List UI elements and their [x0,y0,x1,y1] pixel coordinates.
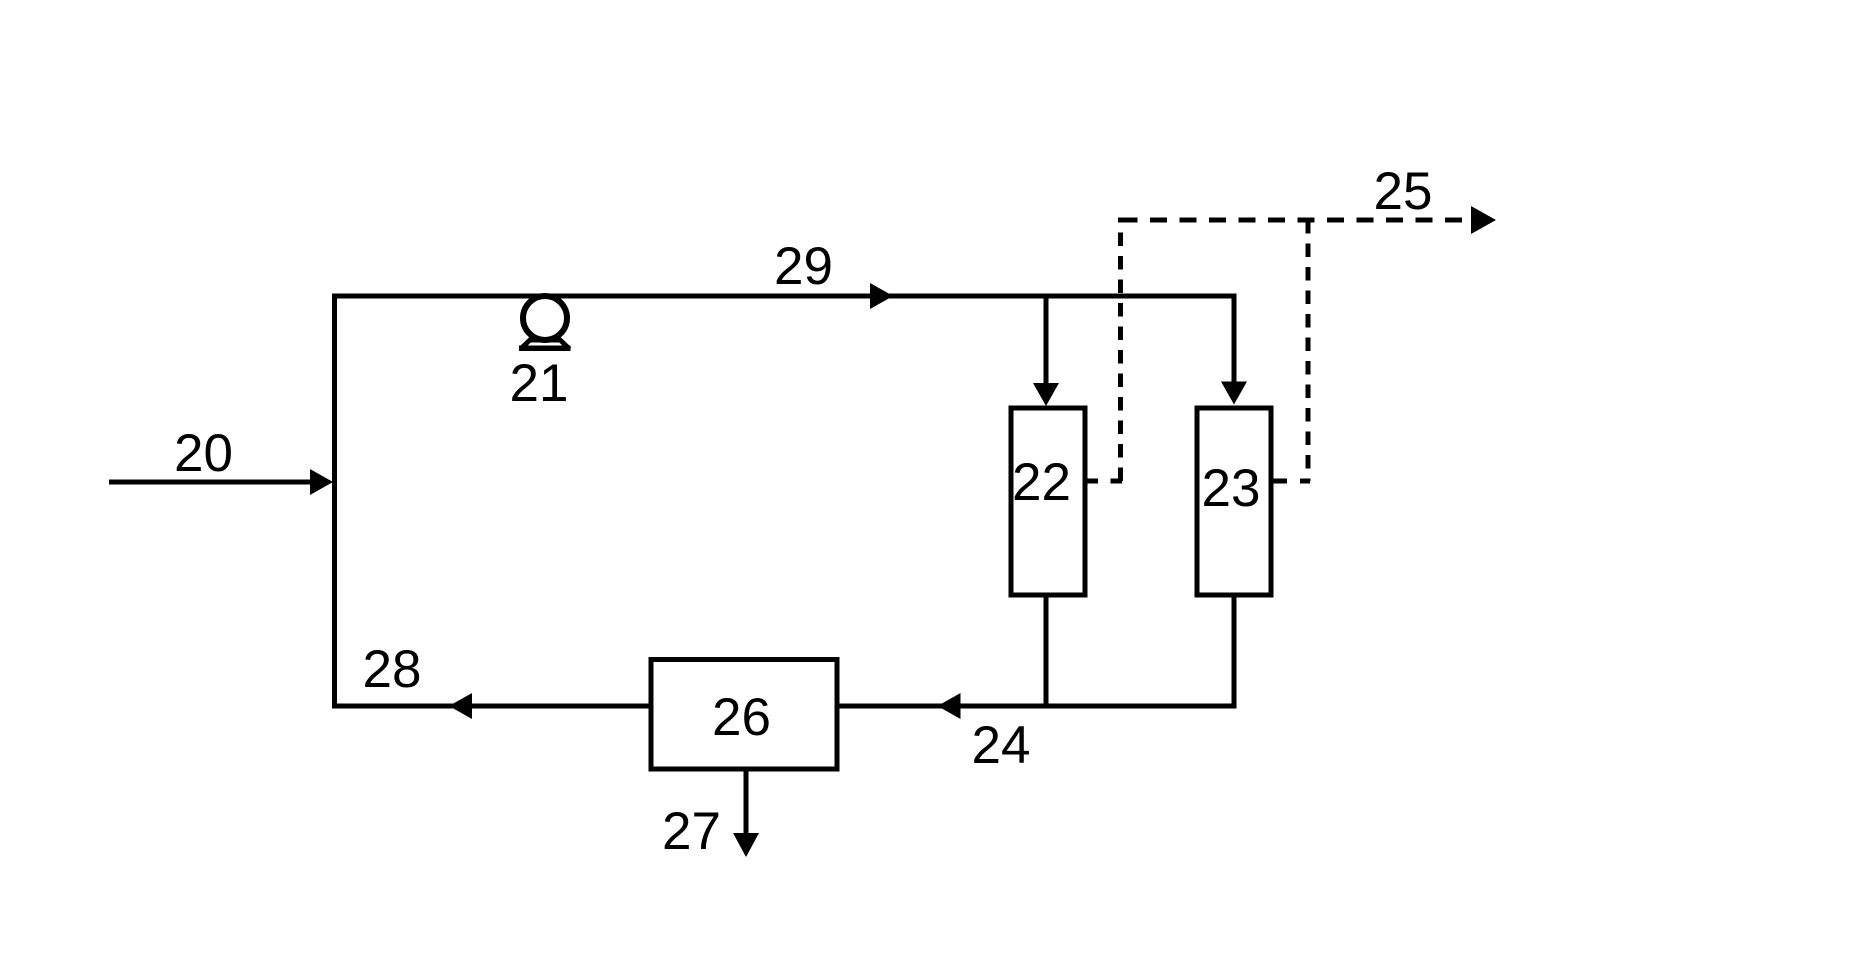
dashed wire: riser from vessel 22 stub up to offgas header [1118,218,1123,482]
wire: branch down into vessel 22 [1033,294,1059,407]
svg-text:27: 27 [662,802,721,861]
unit box 26 [651,660,837,770]
wire: branch down into vessel 23 [1221,294,1247,405]
dashed wire: overhead stub from vessel 23 [1270,479,1310,484]
vessel 23 [1197,408,1271,595]
wire: bottoms of vessel 22 down to product header [1044,596,1049,709]
svg-text:21: 21 [510,354,569,413]
wire: feed stream 20 arrow into loop [109,469,333,495]
svg-text:29: 29 [774,237,833,296]
svg-text:26: 26 [712,688,771,747]
dashed wire: offgas header to stream 25 arrow [1121,206,1497,234]
svg-text:22: 22 [1012,453,1071,512]
vessel 22 [1011,408,1085,595]
wire: left riser and top header of loop [335,296,1237,709]
wire: stream 28 from unit 26 back to left riser [335,693,649,719]
svg-text:23: 23 [1202,459,1261,518]
wire: bottoms of vessel 23 to unit 26, stream 24 [840,596,1235,720]
wire: purge stream 27 down from unit 26 [733,769,759,857]
svg-text:25: 25 [1374,162,1433,221]
dashed wire: riser from vessel 23 stub up to offgas header [1306,220,1311,481]
dashed wire: overhead stub from vessel 22 [1086,479,1122,484]
svg-text:20: 20 [174,424,233,483]
pump 21 [519,296,571,351]
arrowhead on top header: stream 29 direction [870,283,893,309]
svg-text:24: 24 [972,716,1031,775]
svg-text:28: 28 [363,640,422,699]
